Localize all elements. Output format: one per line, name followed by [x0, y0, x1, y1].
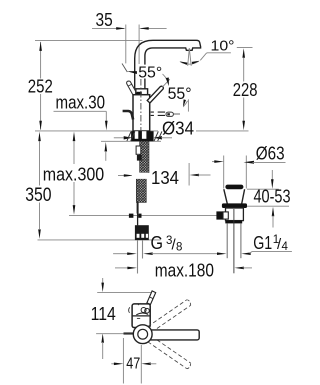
- svg-text:8: 8: [176, 242, 182, 254]
- svg-text:47: 47: [126, 356, 140, 373]
- svg-text:40-53: 40-53: [254, 187, 291, 207]
- svg-text:55°: 55°: [168, 85, 192, 103]
- svg-text:max.30: max.30: [56, 92, 106, 112]
- svg-text:134: 134: [151, 168, 179, 188]
- svg-text:10°: 10°: [211, 38, 235, 55]
- svg-text:G: G: [151, 233, 164, 253]
- svg-text:max.300: max.300: [43, 164, 104, 184]
- svg-text:228: 228: [233, 80, 258, 100]
- svg-text:Ø34: Ø34: [162, 119, 194, 139]
- svg-text:max.180: max.180: [155, 260, 214, 280]
- svg-text:35: 35: [96, 10, 113, 30]
- svg-text:350: 350: [25, 185, 51, 206]
- svg-text:252: 252: [28, 77, 53, 97]
- svg-text:114: 114: [91, 304, 116, 324]
- svg-text:G1: G1: [253, 233, 272, 253]
- svg-text:55°: 55°: [138, 64, 162, 81]
- svg-text:4: 4: [282, 241, 289, 253]
- svg-text:Ø63: Ø63: [256, 143, 285, 163]
